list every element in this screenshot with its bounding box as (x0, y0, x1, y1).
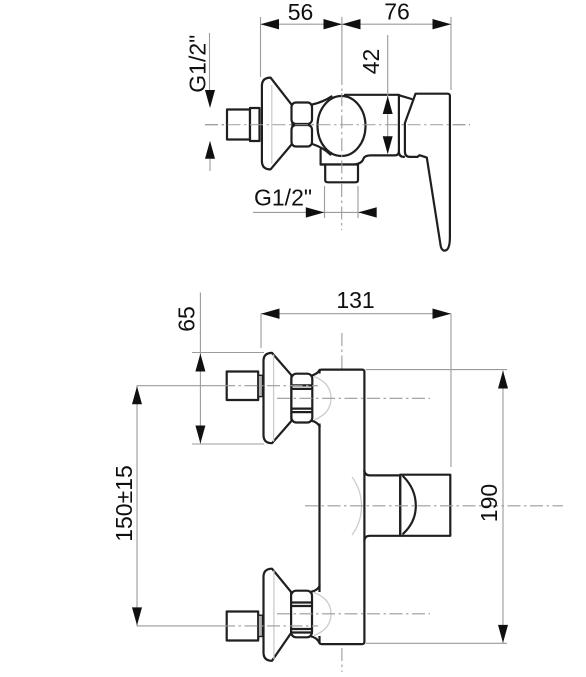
leader line G1/2" down arrow (209, 33, 211, 92)
outlet stub bottom (top view) (325, 165, 358, 183)
handle connector bottom step (399, 152, 404, 157)
body bottom edge across outlet (321, 163, 358, 165)
arrow G1/2 down (205, 90, 215, 108)
centerline outlet horizontal (305, 505, 563, 507)
arrow 56 right (324, 19, 343, 29)
erase body left edge at bottom inlet (318, 592, 323, 636)
wire: extension line 56/76 middle (341, 17, 343, 72)
wire: extension line 131 left (260, 314, 262, 348)
svg-text:42: 42 (358, 49, 384, 75)
outlet end block (400, 475, 450, 536)
centerline below outlet (341, 184, 343, 230)
S-curve nut to body top inlet (311, 370, 320, 376)
dimension line 131 (261, 313, 451, 315)
centerline stub bottom (150 ext) (137, 625, 222, 627)
centerline nut bottom (277, 613, 430, 615)
svg-text:131: 131 (336, 287, 374, 313)
S-curve nut to body top inlet lower (311, 420, 320, 426)
flange top inlet (264, 353, 292, 443)
arrow 150±15 bottom (132, 607, 142, 625)
flange inner line bottom (273, 571, 275, 660)
centerline stub bottom dash (222, 625, 318, 627)
outlet stub right (364, 470, 399, 541)
vertical centerline front view (341, 333, 343, 672)
escutcheon inner line (271, 85, 273, 164)
arrow 190 bottom (498, 625, 508, 643)
svg-text:56: 56 (288, 0, 314, 25)
nut facet lines bottom inlet lower (292, 629, 311, 633)
arrow 42 up (383, 96, 393, 114)
nut top inlet (291, 374, 312, 423)
svg-text:150±15: 150±15 (111, 465, 137, 542)
arrow 131 right (433, 309, 452, 319)
erase body left edge at top inlet (318, 374, 323, 424)
collar to cap bottom curve (312, 144, 330, 155)
hex nut lower cell (top view) (292, 125, 313, 147)
S-curve nut to body bottom inlet (311, 586, 320, 592)
svg-text:G1/2": G1/2" (185, 35, 211, 93)
arrow 65 top (195, 354, 205, 372)
arrow 56 left (261, 19, 280, 29)
svg-text:190: 190 (476, 484, 502, 522)
body of valve (top view) visible edges (321, 95, 399, 165)
outlet joint line (399, 475, 401, 535)
arrow G1/2 bottom left (306, 207, 325, 217)
stub end ring (top view) (250, 108, 260, 141)
arrow 42 down (383, 136, 393, 154)
threaded stub (top view) (227, 110, 250, 140)
wire: extension line 56 left (260, 17, 262, 77)
faint ball arc in body at outlet (352, 477, 362, 535)
wire: extension line 76 right (450, 17, 452, 90)
dim line G1/2" bottom (253, 211, 374, 213)
wire: extension line 65 top (192, 352, 264, 354)
nut facet lines bottom inlet (292, 603, 311, 607)
arrow 190 top (498, 371, 508, 389)
stub bottom inlet (227, 612, 259, 641)
handle connector slant (399, 95, 412, 99)
dimension line 42 (387, 35, 389, 153)
S-curve nut to body bottom inlet lower (311, 636, 320, 643)
arrow G1/2 bottom right (358, 207, 377, 217)
dimension line 65 (199, 293, 201, 445)
wire: extension line 190 bottom (366, 642, 507, 644)
svg-text:65: 65 (174, 306, 200, 332)
arrow 76 right (433, 19, 452, 29)
escutcheon cone (top view) (262, 78, 293, 170)
svg-text:G1/2": G1/2" (254, 185, 312, 211)
wire: extension line 131 right (450, 314, 452, 467)
dimension line 190 (502, 371, 504, 644)
ext dashed below outlet (324, 186, 326, 218)
arrow 131 left (261, 309, 280, 319)
flange bottom inlet (264, 569, 292, 661)
body slab front view (320, 370, 365, 644)
faint flange arc top inlet (314, 377, 331, 421)
gray ring top inlet (258, 375, 262, 396)
faint flange arc bottom inlet (314, 593, 331, 636)
dimension line 56/76 (261, 23, 452, 25)
flange inner line (273, 355, 275, 442)
arrow 150±15 top (132, 386, 142, 404)
outlet face arc (403, 476, 416, 533)
hex nut upper cell (top view) (292, 103, 313, 125)
cap ellipse (top view) (318, 96, 366, 156)
centerline horizontal top view (205, 124, 470, 126)
arrow 76 left (342, 19, 361, 29)
arrow 65 bottom (195, 426, 205, 444)
stub top inlet (227, 372, 259, 401)
dimension line 150±15 (136, 386, 138, 626)
body of valve (top view) fill (321, 95, 399, 165)
gray ring bottom inlet (258, 615, 262, 636)
wire: extension line 65 bottom (192, 443, 264, 445)
nut facet lines top inlet lower (293, 409, 311, 413)
wire: extension line 190 top (366, 369, 507, 371)
handle lever (405, 94, 450, 251)
leader tail below up arrow (209, 159, 211, 171)
svg-text:76: 76 (384, 0, 410, 25)
centerline re-draw over parts (205, 124, 470, 126)
nut bottom inlet (291, 591, 312, 638)
centerline nut top (277, 397, 430, 399)
centerline stub top dash (222, 385, 318, 387)
nut facet lines top inlet (293, 385, 311, 389)
centerline vertical through cap (341, 93, 343, 184)
leader line G1/2" up arrow (205, 141, 215, 159)
collar to cap top curve (312, 96, 331, 104)
wire: extension below outlet right (357, 186, 359, 218)
centerline stub top (150 ext) (137, 385, 222, 387)
wire: extension dash middle lower (341, 72, 343, 93)
